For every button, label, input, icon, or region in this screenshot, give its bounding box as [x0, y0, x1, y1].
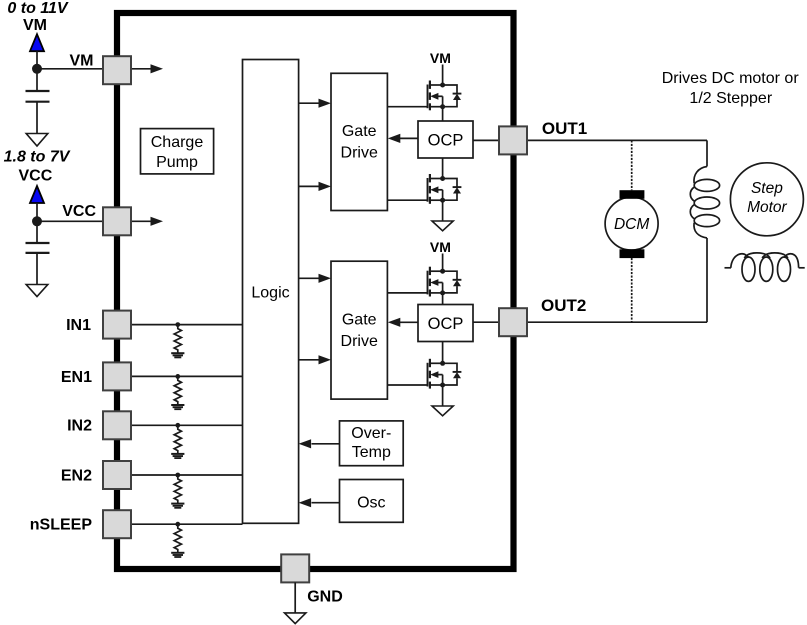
svg-text:Osc: Osc — [357, 495, 385, 512]
svg-text:Drive: Drive — [341, 333, 378, 350]
svg-text:EN1: EN1 — [61, 369, 92, 386]
svg-text:Temp: Temp — [352, 444, 391, 461]
svg-text:Gate: Gate — [342, 123, 377, 140]
svg-text:0 to 11V: 0 to 11V — [7, 0, 69, 17]
svg-text:VM: VM — [23, 17, 47, 34]
svg-text:OUT2: OUT2 — [541, 296, 586, 315]
svg-text:Step: Step — [751, 180, 783, 197]
svg-text:Drive: Drive — [341, 145, 378, 162]
svg-text:VCC: VCC — [19, 168, 53, 185]
svg-text:Pump: Pump — [156, 154, 198, 171]
svg-text:OCP: OCP — [428, 131, 464, 149]
svg-text:nSLEEP: nSLEEP — [30, 517, 93, 534]
svg-text:OUT1: OUT1 — [542, 119, 587, 138]
svg-text:1.8 to 7V: 1.8 to 7V — [4, 148, 71, 165]
svg-text:DCM: DCM — [614, 216, 649, 233]
svg-text:Logic: Logic — [251, 285, 289, 302]
svg-text:IN1: IN1 — [66, 317, 91, 334]
svg-text:Gate: Gate — [342, 312, 377, 329]
svg-text:EN2: EN2 — [61, 467, 92, 484]
svg-text:VM: VM — [430, 50, 451, 66]
svg-text:VM: VM — [70, 52, 94, 69]
svg-text:IN2: IN2 — [67, 418, 92, 435]
svg-text:VCC: VCC — [62, 203, 96, 220]
svg-text:VM: VM — [430, 239, 451, 255]
svg-text:OCP: OCP — [428, 315, 464, 333]
svg-text:Motor: Motor — [747, 199, 787, 216]
svg-text:Charge: Charge — [151, 134, 204, 151]
svg-text:Over-: Over- — [351, 425, 391, 442]
svg-text:Drives DC motor or: Drives DC motor or — [662, 70, 800, 87]
svg-text:1/2 Stepper: 1/2 Stepper — [689, 90, 772, 107]
svg-text:GND: GND — [307, 589, 343, 606]
